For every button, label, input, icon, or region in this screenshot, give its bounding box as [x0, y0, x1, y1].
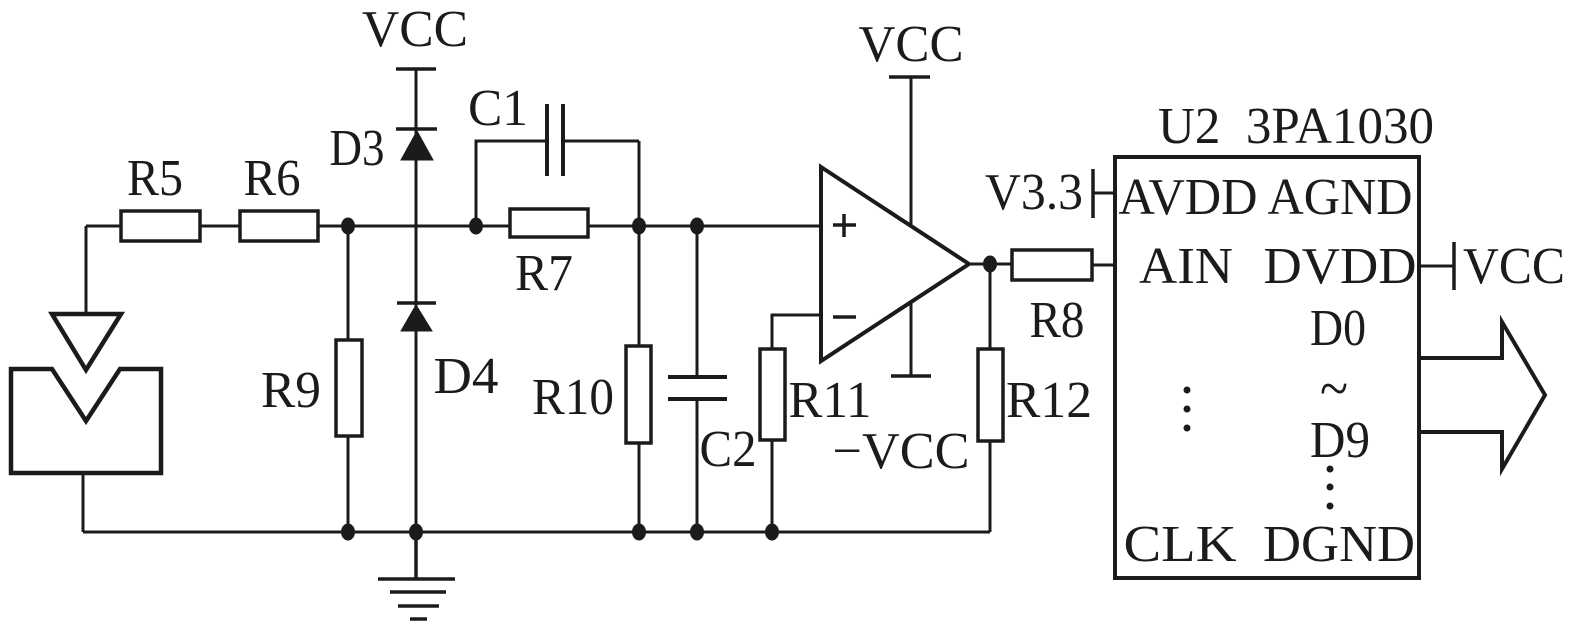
op-amp plus sign [833, 214, 856, 237]
svg-text:R11: R11 [789, 372, 872, 429]
svg-text:−VCC: −VCC [833, 423, 970, 480]
junction node dots [341, 218, 997, 541]
V3.3 terminal tick [1091, 169, 1095, 218]
node ground bus C2 [690, 524, 704, 541]
svg-text:DGND: DGND [1263, 516, 1415, 573]
svg-text:AVDD: AVDD [1119, 169, 1258, 226]
wire R9 branch [347, 226, 350, 532]
svg-text:D4: D4 [434, 348, 499, 405]
resistor R5 [121, 211, 200, 241]
svg-text:R6: R6 [244, 150, 301, 207]
wire R12 branch [989, 264, 992, 532]
IC U2 box [1115, 157, 1419, 578]
wire C2 branch top [696, 226, 699, 377]
wire op-amp inverting input [772, 315, 821, 532]
resistor R10 [626, 346, 651, 443]
VCC terminal tick right [1452, 242, 1456, 290]
wire op-amp -VCC rail [910, 303, 913, 376]
wire main signal line [86, 225, 821, 228]
sensor transducer body [11, 369, 161, 473]
svg-text:U2 3PA1030: U2 3PA1030 [1158, 98, 1434, 155]
node ground bus D4 [409, 524, 423, 541]
data bus arrow [1419, 322, 1545, 469]
node ground bus R10 [632, 524, 646, 541]
wire DVDD to VCC [1419, 265, 1454, 268]
svg-text:VCC: VCC [1463, 238, 1565, 295]
ellipsis dots left column [1184, 387, 1191, 432]
diode D3 cathode bar [396, 127, 437, 131]
VCC terminal bar op-amp [889, 75, 930, 79]
wire C1 loop right [563, 140, 639, 143]
svg-text:V3.3: V3.3 [985, 164, 1083, 221]
svg-text:AGND: AGND [1268, 169, 1413, 226]
svg-text:R7: R7 [515, 245, 573, 302]
wire C1 loop left [476, 141, 547, 226]
svg-text:R8: R8 [1030, 292, 1085, 349]
svg-text:CLK: CLK [1124, 516, 1237, 573]
capacitor C1 plates [547, 104, 563, 176]
resistor R12 [978, 349, 1003, 441]
ground [378, 532, 455, 619]
diode D3 body [401, 131, 433, 160]
node C2 top junction [690, 218, 704, 235]
resistor R8 [1012, 250, 1092, 280]
svg-text:R10: R10 [532, 369, 614, 426]
node ground bus R11 [765, 524, 779, 541]
node C1 left junction [469, 218, 483, 235]
svg-text:AIN: AIN [1139, 238, 1233, 295]
sensor transducer triangle [52, 314, 121, 370]
diode D4 cathode bar [397, 301, 436, 305]
VCC terminal bar left [396, 67, 436, 71]
svg-text:C2: C2 [700, 421, 757, 478]
wire D3 D4 chain [415, 69, 418, 532]
resistor R6 [240, 211, 318, 241]
resistor R9 [336, 340, 362, 436]
svg-text:R5: R5 [127, 150, 183, 207]
wire V3.3 to AVDD [1093, 192, 1115, 195]
ellipsis dots right column [1327, 466, 1334, 510]
svg-text:D0: D0 [1310, 300, 1366, 357]
svg-text:C1: C1 [468, 80, 528, 137]
svg-text:DVDD: DVDD [1264, 238, 1417, 295]
svg-text:VCC: VCC [362, 1, 468, 58]
svg-text:R12: R12 [1006, 372, 1092, 429]
node op-amp output junction [983, 256, 997, 273]
node R6/R9 junction [341, 218, 355, 235]
wire op-amp VCC rail [910, 77, 913, 228]
diode D4 body [401, 305, 432, 331]
wire op-amp output to R8 [969, 263, 1012, 266]
svg-text:D9: D9 [1310, 412, 1370, 469]
wire C1 right drop [638, 141, 641, 226]
-VCC terminal bar [891, 374, 931, 378]
svg-text:D3: D3 [330, 120, 385, 177]
wire R10 branch [638, 226, 641, 532]
svg-text:R9: R9 [261, 362, 321, 419]
svg-text:VCC: VCC [859, 16, 964, 73]
wire sensor bottom to ground bus [82, 473, 85, 532]
wire sensor top drop [85, 226, 88, 314]
resistor R11 [760, 349, 785, 440]
op-amp minus sign [833, 315, 856, 319]
node C1/R10 junction [632, 218, 646, 235]
wire R8 to AIN [1092, 264, 1115, 267]
wire C2 branch bottom [696, 399, 699, 532]
capacitor C2 plates [668, 377, 727, 399]
op-amp U1 triangle [821, 167, 969, 361]
wire bottom ground bus [83, 531, 990, 534]
node ground bus R9 [341, 524, 355, 541]
resistor R7 [510, 209, 588, 237]
